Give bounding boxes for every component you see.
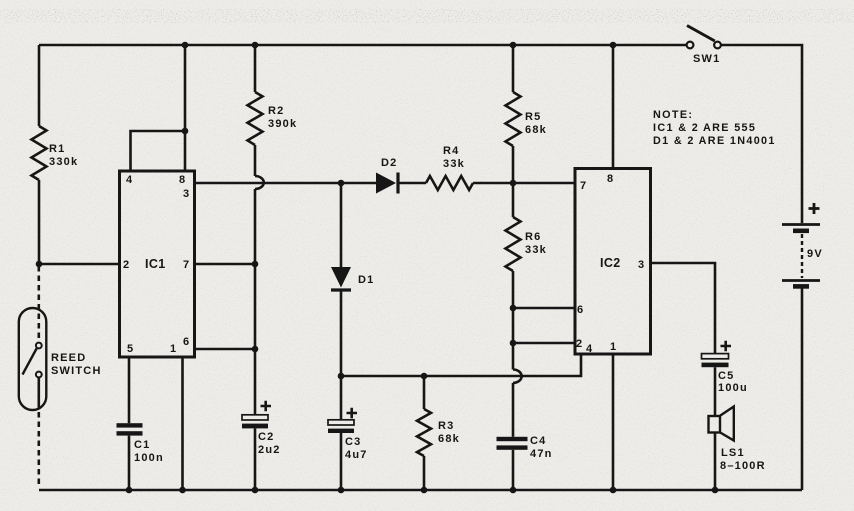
wire R2 column down to C2 through pin7 and pin6 nodes — [254, 189, 257, 415]
svg-text:9V: 9V — [807, 248, 823, 260]
capacitor C2 plus sign — [261, 401, 272, 412]
svg-text:100n: 100n — [134, 452, 164, 464]
capacitor C2 bottom plate — [242, 424, 268, 429]
junction ground rail at IC2 pin1 — [610, 487, 617, 494]
wire top rail to R2 — [254, 45, 257, 92]
switch SW1 lever — [687, 26, 715, 42]
switch SW1 right contact — [714, 42, 721, 49]
wire C3 node down to C3 top plate — [340, 376, 343, 420]
svg-text:8: 8 — [607, 173, 613, 185]
wire dashed from node down to reed switch — [37, 266, 40, 342]
capacitor C5 plus sign — [721, 341, 732, 352]
wire D1 branch node down to D1 anode — [340, 183, 343, 267]
svg-text:C5: C5 — [718, 370, 734, 382]
svg-text:D1 & 2 ARE 1N4001: D1 & 2 ARE 1N4001 — [653, 135, 776, 147]
svg-text:4: 4 — [126, 174, 133, 186]
svg-text:5: 5 — [127, 343, 133, 355]
wire IC1 pin 7 to R2 column — [195, 263, 256, 266]
wire speaker bottom to ground rail — [714, 433, 717, 491]
speaker LS1 body — [709, 416, 721, 433]
wire R3 node to R3 top — [423, 376, 426, 409]
svg-text:2: 2 — [123, 259, 129, 271]
svg-text:C4: C4 — [530, 435, 546, 447]
capacitor C1 bottom plate — [117, 431, 143, 435]
wire R6 bottom through pin6/pin2 nodes to hop — [512, 271, 515, 370]
resistor R2 — [248, 92, 263, 145]
wire node to IC2 pin 6 — [513, 307, 575, 310]
wire IC2 pin 3 output to C5 — [651, 263, 716, 354]
svg-text:SW1: SW1 — [693, 53, 720, 65]
resistor R1 — [32, 126, 47, 180]
svg-text:33k: 33k — [525, 244, 547, 256]
battery BT1 cell2 short plate — [793, 284, 809, 289]
svg-text:7: 7 — [183, 259, 189, 271]
wire R5 bottom to node — [512, 146, 515, 183]
battery BT1 cell1 long plate — [782, 223, 820, 226]
capacitor C4 bottom plate — [497, 445, 528, 449]
capacitor C1 top plate — [117, 423, 143, 427]
svg-text:3: 3 — [638, 259, 644, 271]
junction D1 branch on pin3 line — [338, 180, 345, 187]
wire top rail right of SW1 with corner down to battery + — [721, 45, 803, 223]
junction top rail at R2 — [252, 42, 259, 49]
svg-text:100u: 100u — [718, 382, 748, 394]
wire R3 bottom to ground rail — [423, 456, 426, 490]
svg-text:LS1: LS1 — [721, 447, 745, 459]
wire IC1 pin 3 output to D2 anode — [195, 182, 377, 185]
wire node to IC1 pin 2 — [39, 263, 119, 266]
svg-text:R1: R1 — [49, 143, 65, 155]
junction D1 C3 control node — [338, 373, 345, 380]
junction top rail at IC1 pin8 column — [182, 42, 189, 49]
wire IC1 pin 1 down to ground rail — [181, 357, 184, 490]
diode D1 body — [331, 267, 351, 288]
junction R3 top node — [421, 373, 428, 380]
junction IC1 pin6 and R2 column — [252, 346, 259, 353]
svg-text:68k: 68k — [438, 433, 460, 445]
junction ground rail at R3 — [421, 487, 428, 494]
speaker LS1 horn — [720, 407, 734, 441]
reed switch lever — [23, 349, 37, 375]
wire reed switch lower contact to capsule bottom — [37, 378, 40, 410]
reed switch lower contact — [36, 372, 42, 378]
svg-text:IC2: IC2 — [600, 256, 621, 270]
wire battery negative down to bottom rail — [801, 288, 804, 490]
svg-text:D1: D1 — [358, 274, 374, 286]
svg-text:6: 6 — [183, 336, 189, 348]
capacitor C4 top plate — [497, 437, 528, 441]
svg-text:68k: 68k — [525, 124, 547, 136]
svg-text:C1: C1 — [134, 439, 150, 451]
svg-text:7: 7 — [580, 180, 586, 192]
junction IC2 pin2 node — [510, 340, 517, 347]
resistor R5 — [506, 92, 521, 146]
svg-text:IC1 & 2 ARE 555: IC1 & 2 ARE 555 — [653, 122, 756, 134]
junction ground rail at C2 — [252, 487, 259, 494]
svg-text:6: 6 — [577, 304, 583, 316]
junction ground rail at C1 — [126, 487, 133, 494]
wire C4 bottom plate to ground rail — [512, 450, 515, 490]
diode D2 cathode bar — [396, 173, 399, 194]
reed switch upper contact — [36, 343, 42, 349]
wire D1 cathode down to C3 node — [340, 292, 343, 377]
wire C3 bottom plate to ground rail — [340, 433, 343, 490]
svg-text:IC1: IC1 — [145, 257, 166, 271]
wire D2 cathode to R4 — [399, 182, 427, 185]
svg-text:4u7: 4u7 — [345, 449, 368, 461]
junction IC2 pin6 node — [510, 305, 517, 312]
wire node to R6 top — [512, 183, 515, 217]
wire IC1 pin 6 to R2 column — [195, 348, 256, 351]
junction ground rail at C3 — [338, 487, 345, 494]
svg-text:R2: R2 — [268, 105, 284, 117]
wire top rail down to IC1 pin 8 — [184, 45, 187, 171]
battery BT1 plus sign — [809, 203, 820, 214]
capacitor C2 positive hollow plate — [242, 415, 268, 420]
wire top rail to R1 — [38, 45, 41, 126]
junction ground rail at IC1 pin1 — [179, 487, 186, 494]
resistor R6 — [506, 217, 521, 271]
svg-text:C2: C2 — [258, 431, 274, 443]
battery BT1 dashed middle — [801, 234, 803, 278]
wire hop of C4 column over pin4 line — [513, 370, 522, 383]
svg-text:R4: R4 — [443, 145, 459, 157]
svg-text:R3: R3 — [438, 420, 454, 432]
wire jog from pin-8 line to IC1 pin 4 — [131, 131, 186, 171]
svg-text:3: 3 — [183, 188, 189, 200]
svg-text:390k: 390k — [268, 118, 297, 130]
junction R1 and IC1 pin2 — [36, 261, 43, 268]
wire IC1 pin 5 down to C1 — [128, 357, 131, 423]
resistor R3 — [417, 409, 431, 456]
wire hop bottom to C4 top plate — [512, 383, 515, 437]
capacitor C3 positive hollow plate — [328, 420, 354, 425]
resistor R4 — [426, 176, 473, 190]
reed switch capsule — [19, 308, 47, 410]
svg-text:33k: 33k — [443, 158, 465, 170]
junction pin4 jog — [182, 128, 189, 135]
wire R2 bottom to hop — [254, 145, 257, 176]
junction ground rail at C4 — [510, 487, 517, 494]
svg-text:1: 1 — [170, 343, 176, 355]
svg-text:R6: R6 — [525, 231, 541, 243]
svg-text:330k: 330k — [49, 156, 78, 168]
switch SW1 left contact — [687, 42, 694, 49]
wire control line C3 node to IC2 pin 4 — [341, 354, 581, 376]
battery BT1 cell2 long plate — [782, 279, 820, 282]
svg-text:NOTE:: NOTE: — [653, 109, 693, 121]
wire bottom ground rail — [39, 489, 802, 492]
wire top rail down to IC2 pin 8 — [612, 45, 615, 169]
junction IC1 pin7 and R2 column — [252, 261, 259, 268]
IC2 555 timer — [575, 169, 651, 355]
wire node to IC2 pin 2 — [513, 342, 575, 345]
svg-text:R5: R5 — [525, 111, 541, 123]
svg-text:REED: REED — [51, 352, 86, 364]
battery BT1 cell1 short plate — [793, 229, 809, 234]
junction top rail at IC2 pin8 column — [610, 42, 617, 49]
junction R4 R5 R6 node — [510, 180, 517, 187]
IC1 555 timer — [120, 171, 195, 357]
wire hop of R2 column over IC1 pin 3 line — [255, 176, 264, 189]
svg-text:2u2: 2u2 — [258, 444, 281, 456]
wire dashed reed switch bottom to ground rail — [37, 412, 40, 488]
svg-text:SWITCH: SWITCH — [51, 365, 102, 377]
junction ground rail at LS1 — [712, 487, 719, 494]
wire R1 bottom to node at IC1 pin 2 — [38, 180, 41, 264]
diode D1 cathode bar — [331, 288, 351, 291]
svg-text:8–100R: 8–100R — [720, 460, 766, 472]
svg-text:4: 4 — [586, 343, 593, 355]
wire C5 bottom to speaker — [714, 367, 717, 416]
wire C1 bottom to ground rail — [128, 436, 131, 490]
capacitor C5 positive hollow plate — [702, 354, 729, 359]
capacitor C5 bottom plate — [702, 363, 729, 368]
capacitor C3 plus sign — [347, 408, 358, 419]
junction top rail at R5 — [510, 42, 517, 49]
wire top supply rail left of SW1 — [39, 44, 686, 47]
svg-text:8: 8 — [179, 174, 185, 186]
wire R4 to node and IC2 pin 7 — [473, 182, 575, 185]
diode D2 body — [376, 173, 396, 194]
svg-text:1: 1 — [610, 341, 616, 353]
wire C2 bottom plate to ground rail — [254, 428, 257, 490]
wire top rail to R5 — [512, 45, 515, 92]
capacitor C3 bottom plate — [328, 429, 354, 433]
svg-text:C3: C3 — [345, 436, 361, 448]
svg-text:D2: D2 — [381, 157, 397, 169]
svg-text:2: 2 — [576, 338, 582, 350]
svg-text:47n: 47n — [530, 448, 553, 460]
wire IC2 pin 1 down to ground rail — [612, 354, 615, 490]
